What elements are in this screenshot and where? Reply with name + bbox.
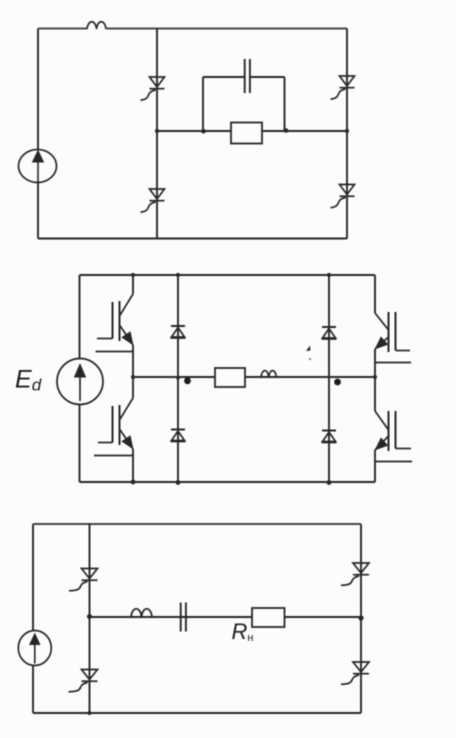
node M (bottom rail / right diode leg) xyxy=(327,480,332,485)
node N (left leg / mid line) xyxy=(87,614,92,619)
wire: right diode leg xyxy=(328,275,330,482)
thyristor V2 (middle leg, lower) xyxy=(141,189,165,212)
thyristor V7 (right leg, upper) xyxy=(341,563,369,585)
wire: middle leg xyxy=(156,29,158,239)
current source I2 (circle with up arrow) xyxy=(18,631,51,666)
wire: mid rail (load line) xyxy=(133,376,375,378)
node O (right leg / mid line) xyxy=(358,615,363,620)
wire: left side upper (into source) xyxy=(37,29,39,151)
node J (top rail / right diode leg) xyxy=(327,273,331,277)
node L (bottom rail / left diode leg) xyxy=(176,480,181,485)
wire: right leg xyxy=(360,524,362,713)
wire: left thyristor leg xyxy=(89,524,91,713)
thyristor V1 (middle leg, upper) xyxy=(141,77,165,100)
wire: left side lower (below source) xyxy=(37,183,39,239)
node C (cap branch right) xyxy=(284,128,289,133)
wire: left side upper (to source) xyxy=(79,275,81,359)
diode D1 (left leg, upper) xyxy=(171,326,186,338)
wire: load mid line xyxy=(157,130,347,132)
current source I1 (circle with up arrow) xyxy=(19,150,57,183)
wire: top rail xyxy=(33,523,361,525)
wire: cap branch left vertical xyxy=(202,77,204,131)
inductor L1 (top rail) xyxy=(87,22,106,29)
wire: cap branch top left xyxy=(203,76,245,78)
junction dot (big, left of resistor) xyxy=(184,377,191,384)
IGBT Q3 (top-right, mirrored) xyxy=(375,312,412,363)
wire: left side lower (below source) xyxy=(79,405,81,483)
svg-text:Ed: Ed xyxy=(15,366,42,395)
node F (left diode leg / mid rail) xyxy=(176,376,180,380)
wire: top rail xyxy=(80,274,376,276)
wire: right leg xyxy=(346,29,348,239)
node K (bottom rail / left IGBT leg) xyxy=(131,480,136,485)
wire: left IGBT leg upper (collector Q1) xyxy=(132,275,134,294)
IGBT Q1 (top-left) xyxy=(96,294,134,352)
wire: left IGBT leg lower (emitter Q2 to bottom rail) xyxy=(132,449,134,482)
wire: cap branch top right xyxy=(250,76,285,78)
wire: right IGBT leg middle (emitter Q3 to collector Q4) xyxy=(374,349,376,411)
thyristor V4 (right leg, lower) xyxy=(331,185,355,208)
wire: right IGBT leg lower (emitter Q4 to bottom rail) xyxy=(374,450,376,482)
thyristor V3 (right leg, upper) xyxy=(331,76,355,99)
wire: top rail left of inductor xyxy=(38,28,87,30)
resistor R1 (box on mid line) xyxy=(231,123,262,144)
wire: bottom rail xyxy=(33,712,361,714)
wire: left side lower (below source) xyxy=(32,666,34,714)
inductor L3 (mid line) xyxy=(131,609,152,617)
resistor R2 (box on mid rail) xyxy=(215,368,245,387)
wire: bottom rail xyxy=(80,481,376,483)
resistor RH (box on mid line) xyxy=(252,608,285,627)
thyristor V8 (right leg, lower) xyxy=(341,662,369,684)
capacitor C2 (plates) xyxy=(180,603,182,632)
speck artifact near right diode leg xyxy=(306,346,311,352)
wire: cap branch right vertical xyxy=(284,77,286,131)
wire: bottom rail xyxy=(38,238,347,240)
wire: left diode leg xyxy=(177,275,179,482)
voltage source Ed (circle with up arrow) xyxy=(57,359,103,405)
wire: mid load line xyxy=(90,616,362,618)
wire: right IGBT leg upper (collector Q3) xyxy=(374,275,376,313)
wire: top rail right of inductor xyxy=(106,28,347,30)
IGBT Q2 (bottom-left) xyxy=(94,398,134,456)
wire: left side upper (to source) xyxy=(32,524,34,631)
wire: left IGBT leg middle (emitter Q1 to collector Q2) xyxy=(132,345,134,398)
node D (right leg / load line) xyxy=(345,129,349,133)
node E (left IGBT leg / mid rail) xyxy=(131,375,135,379)
svg-text:Rн: Rн xyxy=(232,619,254,644)
node G (right IGBT leg / mid rail) xyxy=(373,375,377,379)
node B (cap branch left) xyxy=(201,129,206,134)
node I (top rail / left diode leg) xyxy=(176,273,180,277)
diode D2 (left leg, lower) xyxy=(171,430,186,442)
node H (top rail / left IGBT leg) xyxy=(131,273,135,277)
node A (mid leg / load line) xyxy=(155,129,159,133)
thyristor V5 (left leg, upper) xyxy=(69,569,98,591)
diode D3 (right leg, upper) xyxy=(322,327,337,339)
diode D4 (right leg, lower) xyxy=(322,431,337,443)
inductor L2 (mid rail) xyxy=(261,371,276,377)
IGBT Q4 (bottom-right, mirrored) xyxy=(375,411,413,462)
junction dot (big, right of right diode leg) xyxy=(334,379,341,386)
thyristor V6 (left leg, lower) xyxy=(69,670,98,692)
node P (left leg / bottom rail) xyxy=(88,711,92,715)
capacitor C1 (plates) xyxy=(244,59,246,93)
